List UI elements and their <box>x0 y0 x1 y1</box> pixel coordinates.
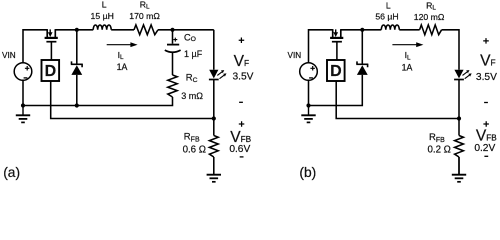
svg-text:0.2 Ω: 0.2 Ω <box>428 145 451 156</box>
node: VFB (a) <box>212 116 216 120</box>
transistor Q1 (a) <box>47 29 55 37</box>
wire: RL to LED corner (b) <box>442 30 459 70</box>
svg-text:3.5V: 3.5V <box>476 72 497 83</box>
wire: gate to driver (a) <box>50 43 52 61</box>
node: VFB (b) <box>457 116 461 120</box>
circuit schematic: buck LED driver, variants (a) and (b) <box>0 0 500 183</box>
LED D2 (a) <box>209 70 218 79</box>
svg-text:D: D <box>45 63 57 80</box>
svg-text:0.2V: 0.2V <box>474 143 495 154</box>
wire: rail corner down to LED (a) <box>213 30 215 70</box>
wire: top rail MOSFET to inductor (a) <box>55 29 93 31</box>
wire: switch node to diode (a) <box>76 30 78 65</box>
node: diode ground junction (a) <box>75 103 79 107</box>
label minus VF (a) <box>239 101 243 103</box>
svg-text:56 µH: 56 µH <box>375 11 398 21</box>
wire: LED to VFB node (b) <box>458 80 460 119</box>
transistor Q2 (b) <box>333 29 341 37</box>
wire: VFB node to RFB (a) <box>213 119 215 136</box>
ground left (a) <box>22 106 24 115</box>
svg-text:(b): (b) <box>299 165 316 180</box>
svg-text:VF: VF <box>234 53 250 70</box>
wire: top rail MOSFET to inductor (b) <box>341 29 382 31</box>
svg-text:170 mΩ: 170 mΩ <box>129 11 160 21</box>
wire: diode anode to ground rail corner (b) <box>309 75 363 106</box>
wire: VIN- down (a) <box>22 80 24 105</box>
label + VF (a) <box>239 38 245 44</box>
wire: inductor to RL (b) <box>399 29 419 31</box>
wire: driver feedback to VFB node (a) <box>51 81 214 119</box>
driver D (a) <box>42 60 60 81</box>
label + VF (b) <box>483 38 489 44</box>
wire: inductor to RL (a) <box>111 29 134 31</box>
resistor RL (a) <box>134 25 158 35</box>
node: VIN ground junction (b) <box>306 103 310 107</box>
label minus VFB (b) <box>484 155 488 157</box>
resistor RFB (a) <box>209 136 218 158</box>
svg-text:VF: VF <box>480 52 496 69</box>
svg-text:(a): (a) <box>3 165 20 180</box>
svg-text:RFB: RFB <box>429 132 445 144</box>
svg-text:1A: 1A <box>117 62 128 72</box>
wire: RC to ground rail (a) <box>23 97 173 106</box>
diode D3 schottky (b) <box>356 63 368 65</box>
svg-text:RFB: RFB <box>184 131 200 143</box>
wire: output node to capacitor (a) <box>172 30 174 44</box>
wire: VIN+ to top rail (a) <box>23 30 47 63</box>
svg-text:CO: CO <box>184 32 196 43</box>
svg-text:RC: RC <box>186 73 198 84</box>
svg-text:RL: RL <box>426 1 436 12</box>
wire: VFB node to RFB (b) <box>458 119 460 136</box>
resistor RFB (b) <box>455 136 464 158</box>
svg-text:D: D <box>330 63 342 80</box>
wire: capacitor to RC (a) <box>172 53 174 75</box>
ground left (b) <box>308 106 310 115</box>
svg-text:15 µH: 15 µH <box>91 11 114 21</box>
resistor RC (a) <box>168 75 177 97</box>
inductor L (a) <box>93 25 111 30</box>
LED D4 (b) <box>454 70 463 79</box>
label + VFB (a) <box>239 121 245 127</box>
voltage source VIN (b) <box>300 63 318 81</box>
svg-text:0.6V: 0.6V <box>229 144 250 155</box>
svg-text:VIN: VIN <box>2 51 16 60</box>
voltage source VIN (a) <box>14 63 32 81</box>
wire: RFB to ground (a) <box>213 157 215 174</box>
node: output node (a) <box>170 28 174 32</box>
wire: LED to VFB node (a) <box>213 80 215 119</box>
svg-text:1 µF: 1 µF <box>184 49 203 59</box>
wire: RL to LED corner (a) <box>158 29 214 31</box>
diode D1 schottky (a) <box>71 63 83 65</box>
svg-text:1A: 1A <box>402 62 413 72</box>
svg-text:L: L <box>386 1 391 11</box>
svg-text:L: L <box>102 0 107 10</box>
current arrow IL (a) <box>107 44 132 46</box>
label minus VFB (a) <box>240 156 244 158</box>
wire: switch node to diode (b) <box>361 30 363 65</box>
label + VFB (b) <box>483 121 489 127</box>
wire: RFB to ground (b) <box>458 157 460 174</box>
svg-text:3.5V: 3.5V <box>233 71 254 82</box>
wire: VIN- down (b) <box>308 80 310 105</box>
node: switch node (b) <box>360 28 364 32</box>
svg-text:IL: IL <box>405 50 411 61</box>
svg-text:0.6 Ω: 0.6 Ω <box>183 144 206 155</box>
ground below RFB (a) <box>213 157 215 174</box>
driver D (b) <box>327 60 345 81</box>
current arrow IL (b) <box>392 44 417 46</box>
label minus VF (b) <box>484 102 488 104</box>
node: VIN ground junction (a) <box>21 103 25 107</box>
svg-text:120 mΩ: 120 mΩ <box>414 12 445 22</box>
ground below RFB (b) <box>458 157 460 174</box>
wire: gate to driver (b) <box>336 43 338 61</box>
resistor RL (b) <box>420 25 442 35</box>
wire: diode anode to ground rail (a) <box>76 75 78 106</box>
node: switch node (a) <box>75 28 79 32</box>
svg-text:RL: RL <box>140 0 150 10</box>
svg-text:VIN: VIN <box>288 51 302 60</box>
capacitor CO (a) <box>167 44 179 46</box>
svg-text:IL: IL <box>118 50 124 61</box>
svg-text:3 mΩ: 3 mΩ <box>181 91 203 101</box>
wire: VIN+ to top rail (b) <box>309 30 333 63</box>
inductor L (b) <box>381 25 399 30</box>
wire: driver feedback to VFB node (b) <box>336 81 459 119</box>
